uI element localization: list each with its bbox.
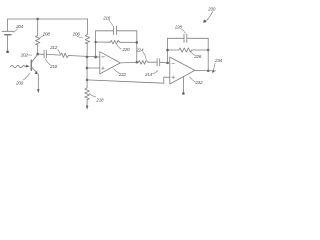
svg-text:220: 220: [122, 47, 131, 52]
wire cap to opamp2: [160, 61, 170, 64]
wire plus2 step: [87, 77, 170, 83]
op-amp U1 222: [100, 52, 121, 74]
svg-text:216: 216: [102, 15, 111, 20]
svg-text:200: 200: [15, 80, 24, 85]
svg-text:202: 202: [20, 53, 29, 58]
node fb2 mid left junction: [166, 49, 169, 52]
wire fb1 top right: [117, 30, 137, 32]
emitter lead: [32, 68, 36, 72]
leader 208: [40, 36, 44, 38]
wire fb1 right vertical: [136, 31, 138, 63]
leader 234: [213, 63, 215, 70]
node plus input junction: [86, 67, 89, 70]
op-amp U2 232: [170, 57, 195, 84]
leader 214: [152, 71, 158, 74]
capacitor C210: [43, 50, 45, 58]
resistor R220: [110, 40, 120, 44]
wire fb2 left vertical: [167, 38, 169, 63]
leader 228: [182, 29, 186, 33]
node opamp2 output junction: [207, 70, 210, 73]
wire fb1 left vertical: [95, 31, 97, 57]
arrow emitter end: [37, 89, 40, 93]
capacitor C216: [113, 26, 115, 34]
wire opamp2 output: [195, 69, 216, 72]
wire branch 208 top: [37, 19, 39, 35]
capacitor C214: [156, 59, 158, 66]
wire fb2 mid right: [192, 49, 209, 51]
input squiggle: [11, 65, 26, 67]
leader 220: [117, 45, 121, 49]
leader 224: [143, 52, 146, 59]
terminal dot under battery: [6, 50, 9, 53]
resistor R208: [36, 35, 40, 45]
node long wire junction: [86, 79, 89, 82]
node fb1 input junction: [94, 56, 97, 59]
resistor R206 branch: [86, 19, 88, 34]
wire bias down: [86, 57, 88, 88]
svg-text:230: 230: [207, 7, 216, 12]
wire opamp1 output: [120, 61, 138, 64]
wire fb1 top left: [96, 30, 113, 32]
terminal dot opamp2 power: [182, 92, 185, 95]
node opamp1 output junction: [136, 61, 139, 64]
wire 208 bottom: [37, 45, 39, 54]
arrow 218 to rail: [86, 106, 89, 110]
resistor R218: [85, 88, 89, 100]
leader 232: [190, 77, 196, 82]
wire cap to resistor: [47, 53, 61, 56]
leader 202: [27, 54, 31, 56]
emitter arrowhead: [34, 71, 38, 74]
node fb2 input junction: [166, 62, 169, 65]
resistor R226: [179, 48, 192, 52]
wire top rail: [8, 18, 88, 20]
transistor Q 200 base bar: [30, 60, 32, 70]
wire collector node to cap: [38, 53, 44, 55]
svg-text:204: 204: [15, 24, 24, 29]
wire resistor to cap: [148, 61, 157, 63]
wire fb2 top left: [168, 37, 184, 39]
wire fb1 mid right: [120, 41, 137, 43]
node fb1 mid junction: [136, 41, 139, 44]
wire battery drop: [7, 19, 9, 31]
leader 206: [77, 36, 83, 38]
resistor R212: [61, 53, 69, 58]
wire fb2 mid left: [168, 49, 179, 51]
leader 216: [109, 20, 113, 26]
svg-text:234: 234: [214, 58, 223, 63]
wire fb2 right vertical: [207, 38, 209, 71]
leader 222: [114, 69, 120, 74]
resistor R224: [138, 61, 148, 65]
wire battery to terminal: [7, 35, 9, 50]
leader 212: [58, 50, 60, 54]
svg-text:208: 208: [42, 31, 51, 36]
leader 218: [89, 94, 95, 97]
leader 200: [23, 73, 29, 80]
arrow into base: [26, 65, 30, 68]
svg-text:214: 214: [144, 72, 153, 77]
svg-text:226: 226: [193, 54, 202, 59]
wire emitter down: [37, 74, 39, 89]
leader 226: [191, 51, 195, 55]
svg-text:218: 218: [95, 97, 104, 102]
collector lead: [32, 54, 38, 62]
node fb1 mid-left junction: [94, 41, 96, 43]
wire resistor to opamp1: [69, 56, 100, 58]
svg-text:222: 222: [118, 72, 127, 77]
wire fb1 mid left: [96, 41, 111, 43]
wire opamp2 power pin: [182, 77, 184, 92]
svg-text:228: 228: [174, 25, 183, 30]
svg-text:232: 232: [194, 80, 203, 85]
wire fb2 top right: [187, 37, 208, 39]
node bias junction: [86, 56, 89, 59]
battery 204: [2, 30, 14, 32]
svg-text:206: 206: [72, 32, 81, 37]
svg-text:212: 212: [49, 45, 58, 50]
node top rail junction: [36, 18, 39, 21]
capacitor C228: [183, 34, 185, 42]
leader 210: [45, 59, 50, 65]
node collector junction: [36, 53, 39, 56]
node fb2 mid right junction: [207, 49, 210, 52]
leader arrow 230: [207, 12, 213, 21]
wire 218 down: [86, 100, 88, 106]
wire plus input stub: [87, 67, 100, 69]
leader 204: [14, 29, 18, 32]
